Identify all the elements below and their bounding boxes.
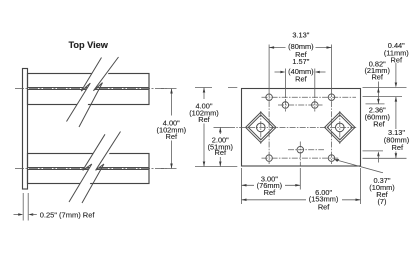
dimension 4.00 left: line — [171, 89, 173, 169]
svg-text:Ref: Ref — [166, 132, 178, 141]
centerline column x314.8 — [314, 99, 316, 112]
dimension 0.25: arrows — [14, 214, 20, 216]
dimension 3.13 right: arrows — [395, 97, 398, 159]
svg-text:1.57": 1.57" — [292, 57, 309, 66]
centerline column x269 — [268, 91, 270, 164]
dimension 1.57: extension lines — [285, 69, 314, 99]
dimension 3.13 top: extension lines — [269, 45, 331, 92]
centerline inner hole row — [278, 104, 323, 106]
centerline top hole row — [262, 96, 357, 98]
dimension 4.00 left: ticks — [161, 89, 177, 169]
dimension 4.00 left: text — [158, 116, 185, 141]
bottom extension line plate-left — [241, 168, 243, 204]
plate bottom extension line — [195, 166, 237, 168]
dimension 0.44: leader with arrow — [395, 63, 397, 84]
dimension 3.00: line — [242, 184, 301, 186]
break gap mask rail R1 — [67, 57, 119, 127]
centerline bottom middle row — [288, 149, 324, 151]
dimension 4.00 left: arrows — [170, 89, 173, 169]
svg-text:3.13": 3.13" — [292, 30, 309, 39]
svg-text:Ref: Ref — [264, 188, 276, 197]
dimension 3.13 top: arrows — [269, 46, 331, 49]
bottom extension line plate-right — [360, 168, 362, 204]
rail R2 inner edge lines — [28, 168, 150, 170]
diamond D2 — [325, 112, 355, 142]
break line B4 — [82, 132, 121, 204]
rail R1 outline — [28, 74, 150, 105]
dimension 2.00: tick — [214, 126, 230, 128]
right extension line bottom outer row — [363, 157, 407, 159]
centerline column x331.5 — [331, 91, 333, 164]
leader 0.37 — [337, 160, 384, 173]
svg-text:Top View: Top View — [68, 40, 108, 50]
dimension 6.00: arrows — [242, 199, 361, 202]
centerline diamond D1 vertical — [260, 111, 262, 144]
break line B2 — [79, 57, 119, 127]
dimension 0.82: line and arrows — [377, 82, 379, 104]
svg-text:0.25" (7mm) Ref: 0.25" (7mm) Ref — [40, 210, 96, 219]
hole H1 top-left — [266, 94, 273, 101]
dimension 3.13 right: text — [383, 129, 411, 152]
dimension 0.25: extension lines — [23, 193, 28, 221]
svg-text:Ref: Ref — [373, 120, 385, 129]
dimension 3.00: arrows — [242, 184, 301, 187]
centerline diamond D2 vertical — [339, 111, 341, 144]
centerline diamond row — [229, 126, 358, 128]
hole H6 bottom-left — [266, 155, 273, 162]
break line B1 — [67, 58, 102, 122]
dimension 4.00 plate: arrows — [203, 88, 206, 167]
right extension line bottom middle row — [363, 150, 384, 152]
svg-text:Ref: Ref — [295, 75, 307, 84]
rail R1 centerline — [15, 88, 167, 90]
break line B3 — [69, 134, 105, 202]
svg-text:Ref: Ref — [215, 148, 227, 157]
dimension 2.00: arrows — [219, 127, 222, 166]
right tick inner hole row — [366, 103, 385, 105]
hole H4 inner-right — [312, 102, 319, 109]
centerline column x285.4 — [284, 99, 286, 112]
bracket (left end plate, edge view) — [23, 69, 28, 190]
plate top extension line — [195, 87, 237, 89]
plate outline — [242, 89, 361, 167]
dimension 4.00 plate: text — [190, 99, 219, 124]
dimension 3.13 right: line — [395, 97, 397, 159]
dimension 4.00 plate: line — [203, 88, 205, 167]
right extension line top hole row — [363, 96, 403, 98]
diamond D1 — [246, 112, 276, 142]
dimension 2.00: text — [207, 134, 234, 157]
svg-text:Ref: Ref — [391, 55, 403, 64]
right extension line plate-top level — [363, 87, 407, 89]
rail R2 outline — [28, 154, 150, 184]
hole H2 top-right — [328, 94, 335, 101]
svg-text:Ref: Ref — [318, 202, 330, 211]
break gap mask rail R2 — [69, 132, 121, 204]
dimension 1.57: arrows — [275, 71, 282, 73]
dimension 2.00: line — [219, 127, 221, 166]
hole H5 bottom-middle — [297, 146, 304, 153]
svg-text:(7): (7) — [377, 197, 386, 206]
rail R2 centerline — [15, 168, 167, 170]
svg-text:Ref: Ref — [198, 115, 210, 124]
hole H7 bottom-right — [328, 155, 335, 162]
hole H3 inner-left — [282, 102, 289, 109]
svg-text:Ref: Ref — [371, 73, 383, 82]
svg-text:Ref: Ref — [392, 143, 404, 152]
dimension 2.36: bottom arrow — [377, 151, 380, 156]
centerline column x300.3 — [299, 142, 301, 166]
bottom extension line center column — [299, 168, 301, 190]
centerline bottom outer row — [262, 157, 340, 159]
dimension 3.13 top: line — [269, 47, 331, 49]
rail R1 inner edge lines — [28, 88, 150, 90]
dimension 6.00: line — [242, 199, 361, 201]
